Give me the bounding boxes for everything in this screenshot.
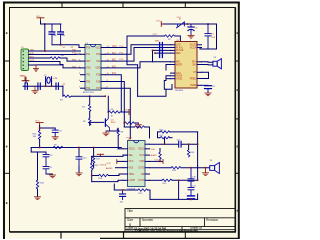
crystal Y1 — [46, 77, 52, 84]
resistor R10 vertical bottom left — [36, 180, 38, 189]
wire below U2 — [114, 184, 137, 190]
U1 right pin names — [95, 47, 101, 90]
capacitor C9 — [52, 130, 58, 137]
svg-text:VSS: VSS — [129, 168, 134, 170]
zone tick bottom 3 — [184, 232, 186, 239]
ground below Q1 — [103, 131, 109, 136]
svg-text:P34: P34 — [86, 88, 91, 90]
svg-text:P31: P31 — [86, 54, 91, 56]
power bar right of R6 — [128, 109, 130, 114]
resistor R3 zigzag — [63, 95, 71, 97]
zone label C right — [237, 146, 239, 148]
svg-text:OUT2: OUT2 — [138, 168, 145, 170]
speaker LS2 — [210, 163, 220, 174]
U1 left pin stubs — [81, 48, 86, 89]
wire U3 loop rectangle — [164, 81, 172, 90]
U3 left pin stubs — [171, 45, 176, 79]
svg-text:VCCD: VCCD — [190, 45, 197, 47]
zone tick left 3 — [3, 172, 10, 174]
resistor R7 horizontal to ground — [124, 122, 134, 124]
wire cap loop top — [38, 152, 47, 154]
wire U3 pin AGC loop — [166, 65, 171, 71]
capacitor C16 — [188, 168, 194, 188]
wire U2 top feed — [124, 126, 134, 128]
connector P1 — [21, 49, 29, 71]
op-amp U3 ISD body — [175, 42, 197, 89]
capacitor C12 — [76, 157, 82, 167]
wire U1 pin11 to U3 row5 — [106, 62, 171, 68]
U2 left pin names — [129, 149, 136, 183]
svg-text:VCC: VCC — [125, 110, 130, 112]
capacitor C5b on rail series bars — [56, 83, 58, 89]
U1 right pin numbers — [107, 46, 110, 89]
wire R16 row right — [170, 131, 198, 133]
wire vcc3 to C9 — [40, 128, 56, 130]
wire U1 pin14 up and right — [106, 36, 165, 48]
wire R18 to LS2 — [181, 167, 210, 169]
resistor R8 vertical below — [117, 128, 119, 149]
inner border bottom edge thick — [10, 231, 236, 233]
wire U1 pin10 down to driver — [106, 75, 122, 112]
title block line under Size row — [125, 226, 235, 228]
node junction rail left — [39, 147, 41, 149]
svg-text:OSC: OSC — [151, 149, 156, 151]
U3 right pin stubs — [197, 45, 202, 86]
wire rail left drop — [30, 148, 32, 153]
wire vcc2 loop right side — [197, 24, 217, 49]
wire R10 to ground — [37, 189, 39, 197]
svg-text:10K: 10K — [61, 55, 65, 57]
U3 left pin names — [176, 45, 184, 81]
node junction rail R11 — [93, 147, 95, 149]
ground below C8 — [205, 93, 211, 96]
svg-text:12M: 12M — [53, 78, 57, 80]
svg-text:VCC: VCC — [95, 47, 100, 49]
svg-text:VCC: VCC — [107, 163, 112, 165]
zone tick top 2 — [122, 3, 124, 8]
ground right of R7 — [135, 123, 141, 128]
svg-text:OSC1: OSC1 — [129, 149, 136, 151]
zone tick bottom 1 — [60, 232, 62, 239]
svg-text:RST: RST — [86, 61, 91, 63]
title block divider file row — [139, 230, 141, 232]
U1 right pin stubs — [101, 48, 106, 89]
wire U3 SP- to LS1 — [202, 64, 213, 66]
zone tick right 1 — [235, 60, 239, 62]
svg-text:VSSD: VSSD — [190, 85, 197, 87]
transistor Q1 — [105, 112, 109, 131]
U1 left pin numbers — [79, 46, 81, 89]
node junction LS2 wire — [197, 167, 199, 169]
wire divider node across — [90, 95, 106, 97]
ground below C12 — [76, 173, 82, 176]
U1 left pin names — [86, 47, 91, 90]
resistor R19 horizontal — [162, 179, 172, 181]
wire cap row right — [181, 143, 198, 145]
power VCC4 bar above U2 left — [97, 154, 103, 156]
wire cap loop left — [31, 152, 37, 180]
svg-text:9012: 9012 — [111, 122, 117, 124]
ground right of cap loop — [49, 174, 55, 178]
wire P1 row4 — [29, 62, 63, 65]
node junction C7 top — [207, 23, 209, 25]
resistor R22 vertical below vcc3 — [38, 131, 40, 140]
inner border frame — [10, 8, 236, 232]
microphone MK1 bars — [160, 43, 163, 58]
wire power bar to C4 — [25, 81, 27, 83]
capacitor C7 — [205, 24, 211, 49]
bottom margin outer border segment — [100, 237, 239, 239]
node junction D1 right — [187, 23, 189, 25]
svg-text:VCC: VCC — [35, 121, 40, 123]
wire Q1 emitter row — [106, 130, 118, 132]
node junction riser — [164, 143, 166, 145]
svg-text:LOOP: LOOP — [129, 180, 136, 182]
wire bottom row right — [150, 198, 198, 200]
U3 right pin names — [190, 45, 197, 88]
resistor R1 zigzag — [50, 57, 60, 59]
zone tick left 2 — [3, 118, 10, 120]
U2 right pin names — [138, 149, 145, 183]
ground below C5 — [32, 86, 38, 93]
wire U3 SP+ to LS1 — [202, 61, 213, 64]
svg-text:P30: P30 — [86, 47, 91, 49]
node junction mic — [152, 50, 154, 52]
svg-text:RST: RST — [30, 56, 35, 58]
main preamp rail — [31, 147, 121, 149]
wire down from vcc rail to P1 row — [44, 24, 46, 51]
node junction C16 top — [190, 167, 192, 169]
capacitor C2 — [49, 24, 55, 45]
ground below P1 wires — [33, 65, 38, 71]
svg-text:AGND: AGND — [106, 167, 113, 170]
wire mic row4 — [155, 52, 171, 54]
svg-text:Size: Size — [127, 218, 133, 222]
op-amp U1 MCU body — [85, 45, 101, 91]
resistor R18 horizontal — [171, 167, 181, 169]
capacitor C10 — [43, 155, 49, 167]
svg-text:LED: LED — [176, 45, 181, 47]
svg-text:AGC: AGC — [176, 72, 181, 75]
wire P1 row2 to U1 — [29, 53, 81, 55]
capacitor C5 on rail series bars — [38, 83, 40, 89]
zone label D left — [6, 202, 8, 204]
wire U1 pin13 to U3 row1 — [106, 45, 171, 55]
capacitor C3 — [58, 24, 64, 45]
node junction R21 bottom — [159, 161, 161, 163]
resistor R4 vertical — [89, 96, 91, 111]
capacitor C15 series — [179, 141, 181, 147]
wire U2 VDD to VCC bar — [150, 160, 163, 162]
power symbol above C4 — [23, 77, 29, 81]
wire cap loop bottom — [46, 173, 53, 175]
svg-text:VCC: VCC — [156, 21, 161, 23]
title block divider date/sheet — [181, 227, 183, 232]
svg-text:TXD: TXD — [30, 49, 35, 51]
svg-text:PREC: PREC — [190, 78, 197, 80]
wire VCC bar to U2 pin3 — [117, 160, 123, 162]
connector P1 pin dots — [23, 51, 24, 70]
resistor R16 upper row — [160, 131, 170, 133]
wire branch down right of U1 — [127, 48, 138, 97]
svg-text:Title: Title — [127, 209, 133, 213]
zone tick top 3 — [184, 3, 186, 8]
wire U2 sel row — [92, 155, 128, 156]
wire rail down right end — [62, 86, 64, 96]
ground stem LS2 — [205, 168, 207, 173]
wire pin row to cap — [150, 143, 178, 145]
wire vcc2 rail right — [163, 23, 217, 25]
node junction vcc3 — [39, 127, 41, 129]
wire R13 down — [91, 170, 93, 181]
wire P1 row3 left — [29, 57, 50, 59]
svg-text:SEL: SEL — [129, 155, 134, 157]
resistor R21 vertical near U2 — [159, 149, 161, 162]
wire R6 to VCC bar — [120, 111, 129, 113]
wire R2 to U3 top — [175, 36, 181, 42]
resistor R13 vertical — [91, 163, 93, 170]
power bar VCC at U2 pin3 — [116, 160, 118, 164]
U2 left pin stubs — [123, 149, 128, 181]
svg-text:VCCA: VCCA — [190, 46, 197, 49]
svg-text:VCC: VCC — [153, 34, 158, 36]
wire U1 pin8 down — [106, 88, 131, 138]
svg-text:P16: P16 — [96, 81, 101, 83]
resistor R20 vertical below cap row — [187, 144, 189, 157]
node junction LS2 column — [197, 180, 199, 182]
outer border frame — [3, 2, 240, 240]
svg-text:Revision: Revision — [206, 218, 218, 222]
R7 wire to ground — [134, 122, 138, 124]
wire U2 OUT3 row right — [150, 179, 163, 181]
wire C12 down — [78, 167, 80, 173]
svg-text:OUT3: OUT3 — [138, 180, 145, 182]
node junction mid bus — [104, 95, 106, 97]
power bar right of U2 — [162, 159, 164, 163]
wire U3 vss stub — [166, 78, 171, 80]
svg-text:RST: RST — [72, 60, 77, 62]
wire LS2 column — [197, 166, 199, 181]
zone tick right 3 — [235, 172, 239, 174]
svg-text:P11: P11 — [96, 61, 101, 63]
zone label B right — [237, 89, 239, 91]
wire vcc3 down — [39, 126, 41, 131]
resistor R6 horizontal — [108, 111, 120, 113]
op-amp U2 body — [128, 141, 146, 187]
wire R14 to U2 pin5 — [109, 174, 124, 176]
zone label B left — [6, 89, 8, 91]
svg-text:Drawn By:: Drawn By: — [184, 229, 199, 233]
zone label A right — [237, 32, 239, 34]
title block outline — [125, 209, 235, 232]
svg-text:VCC: VCC — [155, 159, 160, 161]
node junction Q1 R7 — [124, 122, 126, 124]
svg-text:RXD: RXD — [30, 53, 35, 55]
zone label D right — [237, 210, 239, 212]
title block divider Revision — [204, 218, 206, 227]
svg-text:REC: REC — [176, 53, 181, 55]
wire riser to R17 — [164, 138, 166, 145]
node junction rail C12 — [78, 147, 80, 149]
svg-text:P32: P32 — [86, 75, 91, 77]
sheet background — [2, 1, 240, 239]
svg-text:VSSD: VSSD — [176, 79, 183, 81]
node junction R6 left — [108, 111, 110, 113]
resistor R9 on rail — [53, 146, 63, 148]
wire to U1 pin4 — [63, 65, 81, 68]
inner border right edge thick — [234, 8, 236, 232]
capacitor C11 — [43, 167, 49, 175]
wire U1 pin12 to U3 row2 — [106, 48, 171, 62]
power VCC3 bar mid left — [36, 123, 43, 126]
zone tick right 2 — [235, 118, 239, 120]
wire mic row3 — [153, 49, 171, 51]
title block divider Size/Number — [139, 218, 141, 227]
wire R16 left link — [158, 132, 161, 138]
svg-text:INT0: INT0 — [30, 60, 36, 62]
svg-text:SP+: SP+ — [192, 62, 197, 64]
node junction R20 top — [188, 143, 190, 145]
node junction loop cap row — [197, 143, 199, 145]
svg-text:AT89C2051: AT89C2051 — [83, 91, 95, 94]
wire U3 FT stub pair — [202, 72, 209, 78]
node junction crystal right — [51, 85, 53, 87]
svg-text:P17: P17 — [96, 88, 101, 90]
capacitor C14 below U2 — [120, 190, 126, 200]
capacitor C8 bottom right of U3 — [202, 85, 212, 93]
zone label A left — [6, 32, 8, 34]
svg-text:VSSA: VSSA — [176, 75, 183, 78]
svg-text:PLAY: PLAY — [127, 137, 133, 140]
svg-text:OUT: OUT — [139, 155, 144, 157]
resistor R17 lower row — [160, 137, 170, 139]
wire vcc top rail — [41, 21, 62, 24]
wire bottom row up right — [197, 194, 199, 199]
ground below LS2 — [202, 173, 208, 176]
wire U1 pin9 down — [106, 82, 125, 128]
svg-text:P10: P10 — [96, 54, 101, 56]
wire AGND to U2 pin4 — [116, 167, 124, 169]
wire U2 OUT2 row right — [150, 167, 172, 169]
node junction vcc rail — [44, 23, 46, 25]
wire P1 row5 — [29, 64, 63, 66]
wire R14 left to drop — [92, 175, 99, 177]
ground below R10 — [34, 197, 40, 200]
node junction divider top — [89, 95, 91, 97]
svg-text:MIC: MIC — [176, 62, 181, 64]
svg-text:MK1: MK1 — [155, 41, 160, 43]
capacitor C18 electrolytic — [188, 196, 195, 200]
wire right loop vertical — [197, 132, 199, 166]
U1 right net labels — [112, 46, 117, 75]
wire R22 to rail — [39, 140, 41, 148]
svg-text:SP-: SP- — [192, 64, 196, 66]
resistor R2 zigzag — [165, 35, 175, 37]
svg-text:VCC: VCC — [36, 16, 41, 18]
zone label C left — [6, 146, 8, 148]
svg-text:PLAYE: PLAYE — [176, 49, 184, 52]
wire R12 right down — [145, 127, 150, 138]
speaker LS1 — [213, 59, 222, 69]
svg-text:TRIG: TRIG — [129, 174, 135, 176]
svg-text:AGND: AGND — [151, 154, 158, 157]
zone tick left 1 — [3, 60, 10, 62]
capacitor C4 on rail series bars — [25, 83, 27, 89]
svg-text:VDD: VDD — [139, 161, 144, 163]
switch S1 lever — [177, 22, 185, 28]
title block line under Title row — [125, 217, 235, 219]
zone tick bottom 2 — [123, 232, 125, 239]
svg-text:ISD1820: ISD1820 — [175, 90, 184, 92]
resistor R11 vertical — [92, 148, 94, 169]
svg-text:P15: P15 — [96, 75, 101, 77]
wire cap bottoms to U1 pin1 — [52, 45, 81, 48]
U2 notch — [134, 141, 139, 143]
capacitor C17 — [188, 188, 194, 196]
node junction right column top — [178, 180, 180, 182]
wire R17 right stub — [170, 137, 172, 139]
node junction crystal left — [45, 85, 47, 87]
U2 right pin stubs — [145, 149, 150, 181]
ground below C6 — [188, 35, 194, 38]
wire mic drop — [152, 50, 154, 61]
resistor R5 vertical — [89, 112, 91, 126]
crystal rail wire — [23, 85, 63, 87]
wire R8 to U2 pin1 — [118, 148, 123, 150]
wire pin10 drop to R6 — [107, 96, 109, 112]
svg-text:PLAYL: PLAYL — [176, 46, 184, 49]
wire preamp drop to R13 — [91, 156, 93, 163]
svg-text:VCC: VCC — [21, 76, 26, 78]
wire mid bus to U3 loop — [138, 89, 166, 96]
wire U3 vss loop — [166, 76, 171, 81]
power VCC1 bar top-left — [37, 18, 44, 21]
node junction row1 — [44, 50, 46, 52]
node junction mic2 — [154, 52, 156, 54]
node junction bottom row — [190, 199, 192, 201]
node junction C3 bottom — [60, 44, 62, 46]
U2 extra right pin stub — [145, 143, 150, 145]
capacitor C6 electrolytic — [188, 24, 194, 35]
wire bottom row to U2 — [92, 180, 123, 181]
title block line under Date row — [125, 229, 235, 231]
wire right column drop — [178, 180, 180, 199]
svg-text:VCC: VCC — [129, 161, 134, 163]
node junction C14 top — [122, 189, 124, 191]
crystal Y1 legs — [46, 84, 52, 87]
node junction LS2 ground — [205, 167, 207, 169]
resistor R14 horizontal — [99, 174, 109, 176]
wire R3 to divider — [71, 95, 90, 97]
resistor R15 horizontal below U2 — [138, 189, 148, 191]
wire R1 to U1 row — [60, 58, 81, 61]
svg-text:VCC: VCC — [177, 17, 182, 19]
power VCC2 bar top right — [161, 22, 163, 27]
wire R5 to Q1 base — [90, 122, 104, 125]
zone tick top 1 — [61, 3, 63, 8]
svg-text:OSC2: OSC2 — [138, 149, 145, 151]
ground below C9 — [52, 137, 58, 140]
resistor R12 above U2 — [135, 126, 145, 128]
svg-text:VDD: VDD — [95, 68, 100, 70]
wire P1 row1 to U1 — [29, 50, 81, 52]
U1 notch — [91, 45, 96, 47]
wire R15 right — [148, 190, 150, 199]
svg-text:VSS: VSS — [86, 68, 91, 70]
wire rail to C12 — [78, 148, 80, 157]
svg-text:MICR: MICR — [176, 64, 182, 66]
svg-text:Number: Number — [142, 218, 154, 222]
